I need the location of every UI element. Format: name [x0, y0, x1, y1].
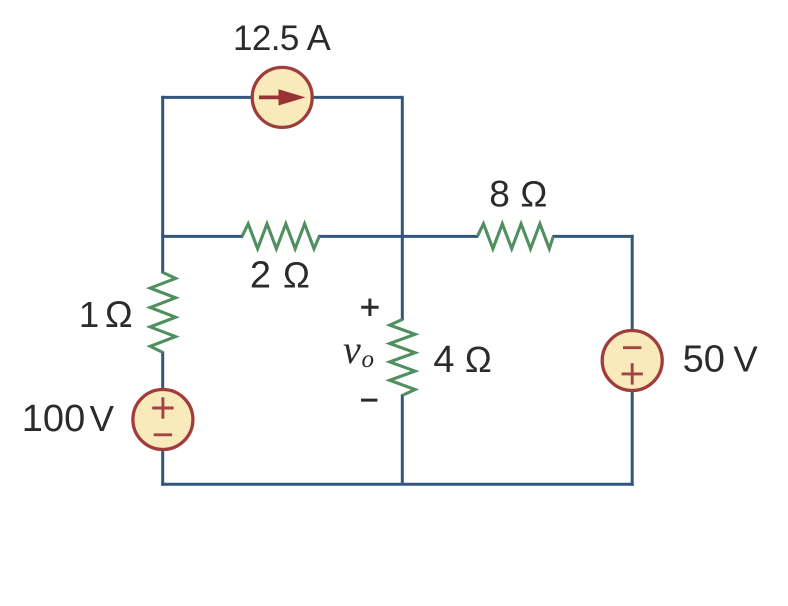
- svg-text:o: o: [362, 346, 375, 373]
- svg-text:Ω: Ω: [283, 255, 310, 296]
- svg-text:12.5: 12.5: [233, 19, 299, 58]
- voltage source V1 100V circle: [133, 390, 193, 450]
- svg-text:4: 4: [433, 339, 454, 381]
- svg-text:V: V: [90, 398, 115, 439]
- wire left vertical upper: [161, 96, 164, 274]
- wire bottom horizontal: [161, 483, 634, 486]
- svg-text:v: v: [343, 327, 361, 372]
- svg-text:A: A: [307, 17, 331, 58]
- wire middle vertical upper: [401, 96, 404, 321]
- current source arrow: [259, 96, 284, 100]
- resistor R 1ohm zigzag: [150, 272, 175, 352]
- resistor R 8ohm zigzag: [477, 224, 553, 249]
- wire left vertical lower: [161, 351, 164, 485]
- wire middle horizontal center: [318, 235, 478, 238]
- svg-text:Ω: Ω: [465, 339, 492, 380]
- node vo minus: [361, 399, 377, 402]
- V2 plus sign: [622, 372, 643, 375]
- wire top horizontal: [161, 96, 402, 99]
- current source I1 12.5A circle: [252, 67, 312, 127]
- resistor R 4ohm zigzag: [390, 319, 415, 395]
- V2 minus sign: [623, 346, 641, 349]
- svg-text:Ω: Ω: [520, 174, 547, 215]
- wire right vertical: [631, 235, 634, 486]
- svg-text:2: 2: [250, 255, 271, 297]
- svg-text:8: 8: [489, 174, 510, 215]
- wire middle horizontal left: [161, 235, 243, 238]
- wire middle vertical lower: [401, 394, 404, 484]
- node vo plus: [361, 306, 378, 309]
- resistor R 2ohm zigzag: [242, 224, 319, 249]
- wire middle horizontal right: [552, 235, 633, 238]
- svg-text:1: 1: [79, 294, 99, 335]
- V1 plus sign: [152, 407, 173, 410]
- svg-text:Ω: Ω: [105, 294, 133, 335]
- svg-text:50: 50: [683, 339, 725, 381]
- svg-text:V: V: [733, 339, 758, 380]
- voltage source V2 50V circle: [602, 331, 662, 391]
- svg-text:100: 100: [22, 398, 85, 440]
- V1 minus sign: [154, 433, 172, 436]
